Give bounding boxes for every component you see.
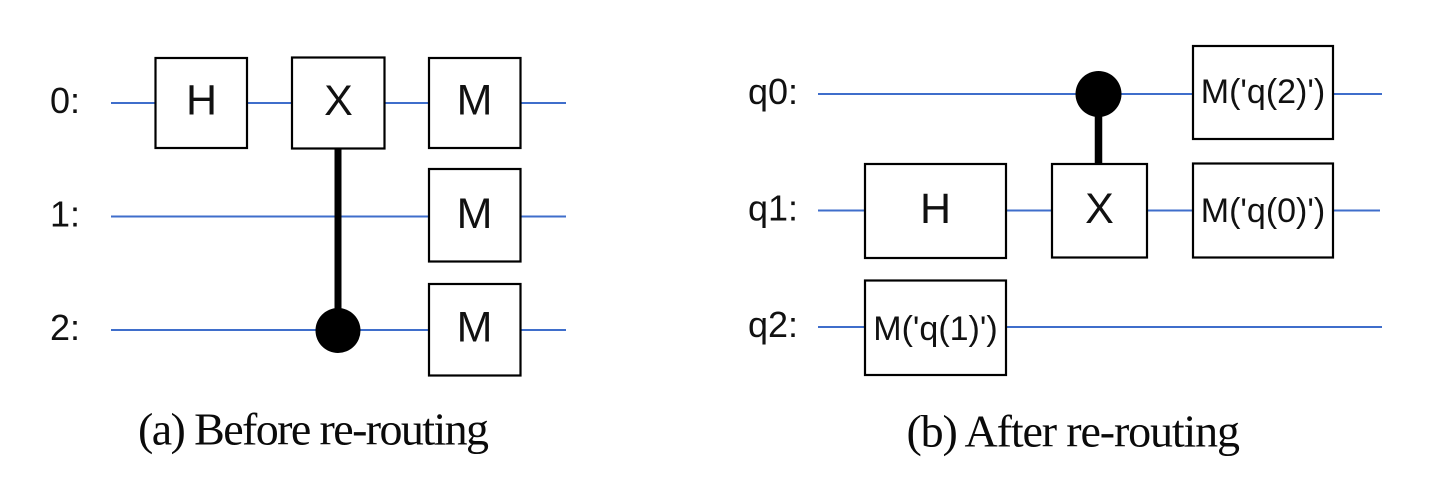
svg-text:q0:: q0:: [748, 71, 798, 112]
svg-text:H: H: [186, 77, 217, 125]
wire q1 segment H to X (b): [1006, 210, 1052, 212]
svg-text:M: M: [457, 77, 493, 125]
gate X CNOT target (b): [1052, 164, 1147, 258]
wire q0 segment right of M (b): [1333, 93, 1382, 95]
svg-text:X: X: [1085, 185, 1114, 233]
svg-text:M('q(0)'): M('q(0)'): [1201, 192, 1325, 230]
svg-text:M: M: [457, 304, 493, 352]
gate M qubit0 (a): [429, 58, 521, 148]
gate X CNOT target (a): [292, 58, 385, 149]
wire qubit0 segment right of M (a): [521, 102, 567, 104]
svg-text:M('q(1)'): M('q(1)'): [873, 310, 997, 348]
wire q1 segment X to M (b): [1147, 210, 1193, 212]
CNOT vertical link X to control (a): [335, 148, 342, 331]
svg-text:X: X: [324, 77, 353, 125]
CNOT vertical link control to X (b): [1095, 94, 1103, 165]
gate M q(2) on q0 (b): [1193, 46, 1333, 139]
wire qubit2 segment right of M (a): [521, 329, 567, 331]
gate H (b): [865, 164, 1006, 258]
svg-text:1:: 1:: [50, 194, 80, 235]
wire q1 segment right of M (b): [1333, 210, 1380, 212]
gate H (a): [156, 58, 248, 148]
gate M q(1) on q2 (b): [865, 281, 1006, 376]
wire q1 segment left of H (b): [818, 210, 865, 212]
svg-text:M: M: [457, 190, 493, 238]
wire qubit0 segment X to M (a): [385, 102, 430, 104]
wire q0 segment left of M (b): [818, 93, 1193, 95]
gate M qubit2 (a): [429, 284, 521, 376]
wire qubit2 segment left of M (a): [111, 329, 429, 331]
svg-text:H: H: [920, 185, 951, 233]
gate M q(0) on q1 (b): [1193, 164, 1333, 258]
svg-text:(b) After re-routing: (b) After re-routing: [907, 406, 1241, 457]
svg-text:q1:: q1:: [748, 188, 798, 229]
svg-text:0:: 0:: [50, 80, 80, 121]
wire qubit0 segment left of H (a): [111, 102, 156, 104]
wire qubit1 segment right of M (a): [521, 216, 567, 218]
svg-text:q2:: q2:: [748, 304, 798, 345]
control dot on q0 (b): [1076, 71, 1122, 117]
gate M qubit1 (a): [429, 169, 521, 262]
wire qubit0 segment H to X (a): [247, 102, 292, 104]
wire qubit1 segment left of M (a): [111, 216, 429, 218]
wire q2 segment right of M (b): [1006, 326, 1382, 328]
wire q2 segment left of M (b): [818, 326, 865, 328]
svg-text:2:: 2:: [50, 307, 80, 348]
control dot on qubit2 (a): [316, 308, 361, 353]
svg-text:(a) Before re-routing: (a) Before re-routing: [138, 404, 489, 455]
svg-text:M('q(2)'): M('q(2)'): [1201, 73, 1325, 111]
